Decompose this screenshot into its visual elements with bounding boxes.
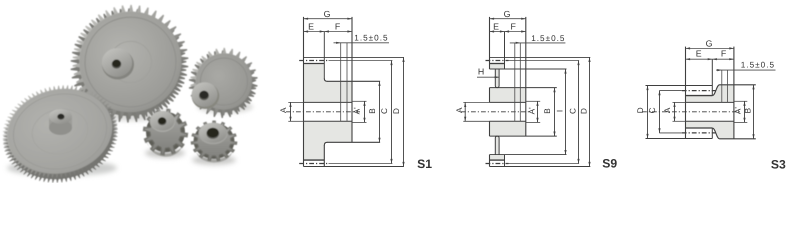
S3: gear outline <box>685 47 687 139</box>
S9: outside diameter dimension D <box>589 57 591 166</box>
S3: bore dimension A <box>673 101 686 103</box>
photo: flat gear top face with teeth <box>0 75 126 188</box>
S9: pitch diameter dimension C <box>578 61 580 164</box>
photo: medium spur gear upper right <box>182 42 263 121</box>
svg-text:1.5±0.5: 1.5±0.5 <box>354 34 388 43</box>
S9: teeth band top <box>490 56 591 58</box>
S3 drawing: gear body section fill <box>686 85 734 139</box>
S9: counterbore dimension A' <box>526 100 540 102</box>
S9: dimension F <box>505 31 526 33</box>
svg-text:A': A' <box>353 107 362 114</box>
svg-text:E: E <box>696 49 702 59</box>
S1: teeth band top (tip, pitch, root lines) <box>304 56 404 58</box>
photo: flat gear raised hub cylinder and bore <box>49 109 72 135</box>
svg-text:B: B <box>368 108 377 114</box>
photo: small pinion gear with large bore, bottom right <box>191 120 238 162</box>
svg-text:F: F <box>511 21 517 31</box>
S1: dimension E <box>304 31 325 33</box>
svg-text:S3: S3 <box>771 158 786 172</box>
S1: pitch diameter dimension C <box>391 61 393 164</box>
svg-text:S9: S9 <box>602 157 617 171</box>
S3: centerline <box>642 111 740 113</box>
photo: soft shadows under gears <box>7 101 253 176</box>
svg-text:F: F <box>335 21 341 31</box>
S3: dimension E <box>686 58 713 60</box>
svg-text:1.5±0.5: 1.5±0.5 <box>531 34 565 43</box>
svg-text:G: G <box>504 9 511 19</box>
svg-text:B: B <box>543 108 552 114</box>
S3: pitch diameter dimension C <box>659 91 661 133</box>
S1: teeth band bottom <box>304 166 404 168</box>
S1: bore (white) <box>304 102 353 121</box>
S3: hub diameter dimension B <box>753 85 755 139</box>
S9: bore dimension A <box>463 101 489 103</box>
svg-text:C: C <box>568 108 577 114</box>
svg-text:A: A <box>663 107 672 113</box>
S9: teeth band bottom <box>490 166 591 168</box>
photo: large flat spur gear bottom left (side thickness) <box>0 80 127 193</box>
photo: small pinion gear bottom center <box>143 108 189 157</box>
svg-text:G: G <box>324 9 331 19</box>
svg-text:B: B <box>743 107 752 113</box>
svg-text:A: A <box>279 107 288 113</box>
svg-text:C: C <box>648 107 657 113</box>
S1: dimension F <box>324 31 352 33</box>
photo: medium spur gear thickness <box>183 45 261 123</box>
S3: 1.5±0.5 callout <box>721 70 723 102</box>
S3: dimension F <box>712 58 734 60</box>
S1: bore dimension A <box>288 101 303 103</box>
svg-text:F: F <box>721 49 727 59</box>
S1: dimension G <box>304 18 353 20</box>
svg-text:1.5±0.5: 1.5±0.5 <box>741 61 775 70</box>
S9: dimension G <box>490 18 526 20</box>
S1: outside diameter dimension D <box>403 57 405 166</box>
svg-text:D: D <box>580 108 589 114</box>
S9: dimension E <box>490 31 505 33</box>
S1: hub diameter dimension B <box>379 81 381 142</box>
photo: large spur gear with hub, top left <box>67 0 194 125</box>
S3: outside diameter dimension D <box>647 86 649 139</box>
svg-text:E: E <box>308 21 314 31</box>
svg-text:E: E <box>493 21 499 31</box>
svg-text:D: D <box>392 108 401 114</box>
svg-text:A': A' <box>733 107 742 114</box>
S9: gear outline <box>489 17 491 69</box>
S9: centerline <box>461 111 531 113</box>
S1: gear outline <box>303 17 305 167</box>
S3: teeth band bottom <box>646 138 713 140</box>
svg-text:C: C <box>380 108 389 114</box>
photo: large spur gear thickness <box>65 3 192 129</box>
S1: centerline <box>286 111 360 113</box>
S9: web offset dimension H <box>477 76 499 78</box>
svg-text:A: A <box>455 107 464 113</box>
S9: hub diameter dimension B <box>554 88 556 137</box>
svg-text:G: G <box>706 38 713 48</box>
svg-text:S1: S1 <box>417 157 432 171</box>
svg-text:A': A' <box>527 107 536 114</box>
svg-text:D: D <box>636 107 645 113</box>
S3: teeth band top <box>646 85 713 87</box>
S1: 1.5±0.5 callout <box>340 43 342 122</box>
S9 drawing: gear body section fill <box>490 64 505 70</box>
S9: web diameter dimension I <box>565 69 567 155</box>
svg-text:I: I <box>555 110 564 112</box>
S1 drawing: gear body section fill <box>304 64 353 161</box>
S1: counterbore dimension A' <box>352 100 367 102</box>
svg-text:H: H <box>478 67 484 77</box>
S9: 1.5±0.5 callout <box>514 43 516 122</box>
S3: dimension G <box>686 47 734 49</box>
S3: counterbore dimension A' <box>734 100 747 102</box>
